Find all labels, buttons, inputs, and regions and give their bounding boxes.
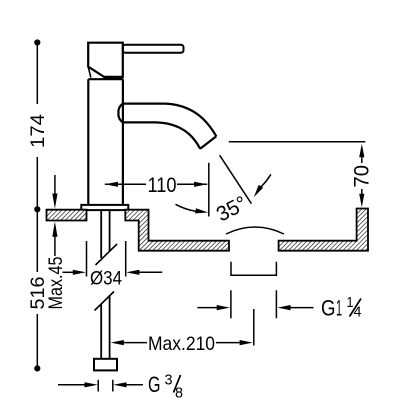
supply pipes lower <box>101 296 109 359</box>
spout outlet face <box>200 136 216 149</box>
Max.210 right arrow <box>216 342 240 344</box>
spout root cap <box>118 104 122 123</box>
70 upper arrow <box>361 157 363 163</box>
svg-text:1: 1 <box>347 295 354 311</box>
lever tip sliver <box>88 67 91 78</box>
G1 1/4 witness ticks <box>230 290 232 318</box>
dimension 516 line <box>36 209 38 368</box>
svg-text:Max.210: Max.210 <box>148 333 215 355</box>
Max.210 leader left arrow <box>124 342 148 344</box>
head bottom seam <box>104 76 123 79</box>
pipe break slash 1 <box>96 244 118 265</box>
Max.45 lower arrow <box>54 236 56 256</box>
svg-text:G: G <box>148 372 161 397</box>
dot mid <box>34 206 40 212</box>
svg-text:1: 1 <box>336 296 342 321</box>
spout lower edge <box>123 122 200 148</box>
35 degree arc arrow right <box>260 174 271 188</box>
hose nut <box>94 359 117 371</box>
countertop right section with step <box>125 210 229 251</box>
G1 1/4 left arrow <box>197 307 217 309</box>
Max.45 upper arrow <box>54 175 56 194</box>
G 3/8 right arrow <box>127 384 144 386</box>
G1 1/4 right arrow <box>290 307 314 309</box>
faucet head (cartridge housing) <box>88 43 123 77</box>
35 degree direction line <box>220 155 252 204</box>
basin floor arc <box>226 227 284 234</box>
70 lower arrow <box>361 189 363 194</box>
faucet body <box>88 79 123 205</box>
handle lever <box>123 45 184 53</box>
70 extension line <box>229 141 365 143</box>
G 3/8 left arrow <box>58 384 85 386</box>
dia34 right arrow <box>140 271 163 273</box>
base flange <box>81 205 128 210</box>
spout upper edge <box>123 104 216 137</box>
supply pipes upper <box>101 211 109 258</box>
35 degree arc arrow left <box>176 204 196 211</box>
outlet witness tick <box>208 163 210 217</box>
countertop left section <box>47 210 87 221</box>
svg-text:110: 110 <box>148 174 177 197</box>
svg-text:Max.45: Max.45 <box>45 256 67 309</box>
dia34 left arrow <box>63 271 74 273</box>
dot bottom <box>34 365 40 371</box>
svg-text:3: 3 <box>165 373 173 389</box>
pipe break slash 2 <box>95 292 115 311</box>
drain outline <box>231 262 276 275</box>
svg-text:8: 8 <box>175 386 183 400</box>
G 3/8 witness ticks <box>97 380 99 392</box>
dia34 witness lines <box>86 241 88 277</box>
countertop far right L-section <box>279 209 368 251</box>
svg-text:70: 70 <box>351 165 374 188</box>
svg-text:Ø34: Ø34 <box>90 268 122 290</box>
dimension 110 <box>105 183 146 185</box>
dimension 174 line <box>36 43 38 210</box>
dot top <box>34 39 40 45</box>
Max.210 witness tick <box>253 309 255 346</box>
svg-text:4: 4 <box>354 305 362 321</box>
svg-text:174: 174 <box>27 114 49 148</box>
svg-text:G: G <box>321 296 336 321</box>
